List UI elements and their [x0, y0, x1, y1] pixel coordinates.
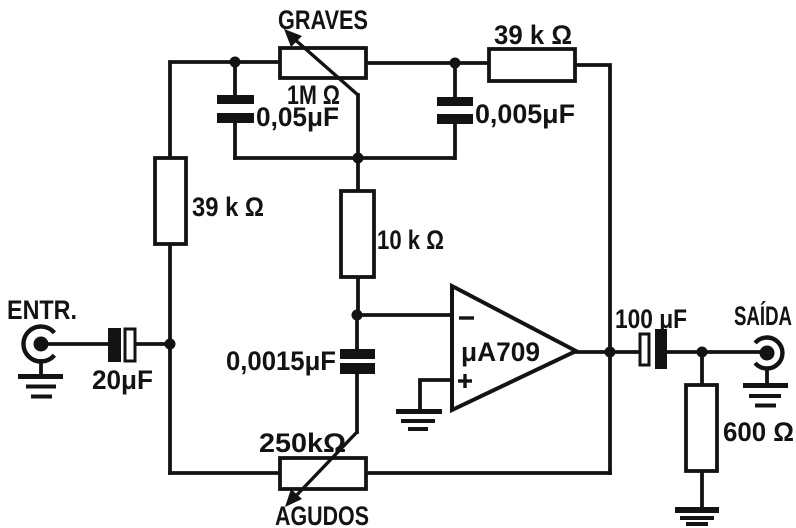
svg-text:GRAVES: GRAVES — [278, 5, 368, 35]
svg-text:100 μF: 100 μF — [615, 304, 687, 334]
svg-text:ENTR.: ENTR. — [7, 295, 77, 325]
svg-text:600 Ω: 600 Ω — [723, 417, 794, 447]
svg-text:39 k Ω: 39 k Ω — [494, 20, 572, 50]
svg-text:SAÍDA: SAÍDA — [734, 300, 792, 331]
svg-text:39 k Ω: 39 k Ω — [192, 192, 264, 222]
svg-text:0,05μF: 0,05μF — [256, 102, 339, 132]
svg-text:250kΩ: 250kΩ — [259, 428, 346, 458]
svg-text:10 k Ω: 10 k Ω — [377, 225, 444, 255]
svg-text:AGUDOS: AGUDOS — [275, 501, 369, 528]
svg-text:μA709: μA709 — [461, 337, 540, 367]
svg-text:0,005μF: 0,005μF — [475, 99, 575, 129]
svg-text:0,0015μF: 0,0015μF — [226, 346, 336, 376]
svg-text:20μF: 20μF — [92, 365, 153, 395]
